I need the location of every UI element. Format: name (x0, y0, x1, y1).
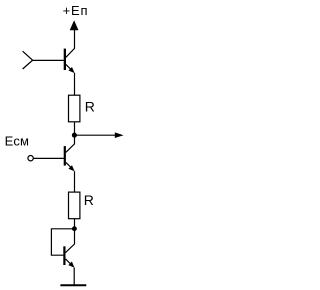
wire VT1 collector to +Ep (66, 30, 75, 58)
wire VT3 emitter to common rail (73, 268, 75, 285)
svg-text:Есм: Есм (5, 134, 30, 149)
wire VT1 base (33, 59, 64, 61)
transistor VT2 base bar (64, 146, 66, 166)
wire R1 to output node (74, 122, 76, 135)
wire VT2 emitter to R2 (74, 171, 76, 192)
output node junction dot (72, 133, 77, 138)
input signal arrow chevron (23, 51, 33, 69)
transistor VT3 base bar (63, 246, 65, 265)
transistor VT3 emitter with arrow (66, 259, 75, 268)
node B junction dot (72, 226, 77, 231)
svg-text:R: R (84, 192, 94, 208)
power arrow to +Ep (70, 20, 79, 30)
transistor VT1 emitter with arrow (66, 64, 75, 73)
wire VT2 collector to output node (66, 135, 75, 152)
transistor VT2 emitter with arrow (66, 162, 75, 171)
wire R2 to node B (74, 219, 76, 229)
transistor VT1 base bar (64, 49, 66, 70)
common rail ground bar (60, 284, 86, 286)
svg-text:+Еп: +Еп (63, 3, 89, 18)
wire VT3 collector to node B (66, 229, 75, 253)
wire base-collector loop VT3 (51, 229, 74, 255)
resistor R1 (69, 95, 80, 122)
svg-text:R: R (85, 98, 95, 114)
wire VT2 base (33, 157, 64, 159)
input terminal circle Esm (28, 156, 33, 161)
wire VT1 emitter to R1 (74, 73, 76, 95)
output wire with arrow (74, 132, 123, 138)
resistor R2 (69, 192, 80, 219)
